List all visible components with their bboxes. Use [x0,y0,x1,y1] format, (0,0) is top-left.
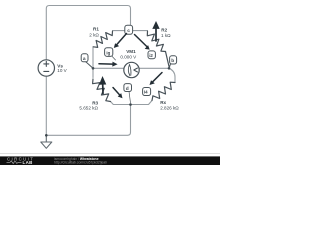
annotation arrow A6 big up near R2 [155,29,157,42]
resistor Rx body [152,82,175,100]
svg-text:c: c [127,29,130,34]
resistor R1 body [93,31,112,47]
annotation arrow A2 from node c to i2 [135,35,148,48]
resistor R3 body [93,79,111,102]
junction dot node d [129,103,132,106]
label ig box [105,48,113,57]
annotation arrow A5 from b along Rx [153,73,162,82]
svg-text:http://circuitlab.com/c/u57pk3: http://circuitlab.com/c/u57pk32tjeah [54,161,107,165]
wire bottom from ground node to riser under node d [46,105,130,136]
svg-text:R2: R2 [161,28,167,33]
svg-text:5.652 kΩ: 5.652 kΩ [79,106,98,111]
svg-text:0.000 V: 0.000 V [120,54,137,59]
svg-text:a: a [83,57,86,62]
wire bridge bottom R3 to Rx through node d [111,101,153,105]
svg-text:d: d [126,86,129,92]
wire a to VM1 left terminal [93,67,124,69]
annotation arrow A1 from node c to ig [116,34,126,46]
voltmeter VM1 arrow glyph [134,68,138,72]
voltage source Vs plus sign [44,61,49,66]
node a flag pointer [86,62,94,69]
label ig flag pointer [112,56,116,60]
svg-text:i4: i4 [144,90,148,95]
junction dot ground node [45,134,48,137]
svg-text:10 V: 10 V [57,68,67,73]
wire b down to Rx terminal [169,68,175,82]
svg-text:2.826 kΩ: 2.826 kΩ [160,105,179,110]
voltage source Vs minus sign [44,70,49,72]
wire left bottom from Vs to ground node [45,76,47,135]
voltage source Vs circle [38,60,54,76]
svg-text:VM1: VM1 [126,49,136,54]
wire a up to R1 terminal [92,47,94,69]
wire top from Vs to node c [46,6,130,60]
svg-text:ig: ig [106,51,110,56]
voltmeter VM1 needle glyph [128,65,131,76]
node b flag box [170,56,177,64]
node d flag pointer [129,91,131,103]
ground symbol [41,135,52,148]
annotation arrow A7 near node d [113,88,120,95]
resistor R2 lead to node b [166,52,170,67]
wire VM1 right terminal to b [139,67,169,69]
node c flag box [125,25,133,34]
svg-text:b: b [171,58,174,64]
footer bar [0,156,220,165]
svg-text:1 kΩ: 1 kΩ [161,33,171,38]
label i4 box [143,88,151,96]
svg-text:R1: R1 [93,27,99,32]
resistor R2 body [147,31,165,51]
wire node c to R2 terminal [133,30,148,32]
node d flag box [124,84,132,92]
footer logo wave [7,161,22,164]
svg-text:2 kΩ: 2 kΩ [89,33,99,38]
voltmeter VM1 circle [124,62,139,77]
annotation arrow A3 right toward VM1 [99,63,113,65]
junction dot node a [92,67,95,70]
svg-text:LAB: LAB [23,160,33,165]
node a flag box [81,54,88,62]
label i2 box [148,51,155,59]
svg-text:i2: i2 [149,53,153,58]
junction dot node b [168,67,171,70]
node b flag pointer [169,64,171,68]
annotation arrow A4 up near R3 [102,84,104,94]
schematic bottom hairline [0,152,220,155]
wire a down to R3 terminal [92,68,94,77]
wire R1 top terminal to node c [113,30,126,32]
